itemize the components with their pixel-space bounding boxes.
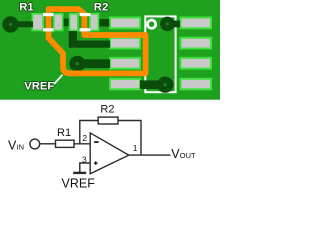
resistor R2 — [98, 117, 118, 124]
wire node A up to R2 — [80, 121, 98, 144]
svg-text:R1: R1 — [19, 2, 33, 14]
svg-text:VREF: VREF — [24, 81, 54, 93]
svg-text:3: 3 — [82, 154, 87, 164]
svg-text:2: 2 — [82, 133, 87, 143]
wire R2 pad 2 to IC pin 1 — [99, 19, 109, 27]
resistor R2 silkscreen tick bottom — [80, 28, 91, 31]
IC U1 pin 1 marker — [148, 20, 156, 28]
via VIN with wire to R1 pad 1 — [2, 16, 33, 32]
resistor R1 — [56, 140, 75, 147]
IC U1 silkscreen outline — [145, 16, 175, 92]
op-amp plus sign — [94, 161, 98, 165]
IC U1 left pad pin 2 — [109, 37, 141, 50]
PCB board background — [0, 0, 220, 100]
resistor R2 pad 1 — [69, 13, 79, 31]
svg-text:VREF: VREF — [62, 177, 96, 191]
resistor R1 silkscreen tick bottom — [43, 28, 54, 31]
svg-text:IN: IN — [17, 143, 25, 152]
VREF rail bar — [73, 172, 86, 174]
via top-right with wire to IC pin 8 — [160, 17, 180, 32]
svg-text:R1: R1 — [57, 127, 71, 139]
wire VREF trace (orange top-copper loop) — [49, 9, 146, 73]
resistor R1 pad 2 — [53, 13, 64, 31]
svg-text:1: 1 — [133, 143, 138, 153]
svg-text:R2: R2 — [100, 104, 114, 116]
IC U1 right pad pin 5 — [180, 78, 213, 91]
wire node to IC pin 2 (bottom copper) — [69, 31, 110, 48]
IC U1 left pad pin 4 — [109, 78, 141, 91]
wire VIN to R1 — [40, 143, 56, 145]
wire R1 to op-amp inverting input (node A) — [74, 143, 90, 145]
wire VREF to non-inverting input — [80, 163, 90, 172]
via VREF with wire to IC pin 3 — [69, 56, 110, 72]
svg-text:R2: R2 — [94, 2, 108, 14]
op-amp U1 triangle — [90, 133, 129, 174]
resistor R1 silkscreen tick top — [43, 13, 54, 16]
resistor R1 pad 1 — [32, 13, 45, 31]
wire R2 to output node — [118, 121, 141, 156]
via bottom with wire to IC pin 4 — [140, 77, 173, 93]
svg-text:OUT: OUT — [180, 151, 196, 160]
wire node R1-R2 junction — [64, 19, 69, 27]
IC U1 left pad pin 1 — [109, 17, 141, 30]
wire output to VOUT — [128, 154, 170, 156]
resistor R2 pad 2 — [89, 13, 99, 31]
op-amp minus sign — [94, 141, 98, 143]
IC U1 right pad pin 8 — [180, 17, 213, 30]
VREF pointer line — [54, 75, 63, 84]
terminal VIN — [30, 139, 40, 149]
IC U1 right pad pin 7 — [180, 37, 213, 50]
IC U1 right pad pin 6 — [180, 57, 213, 70]
IC U1 left pad pin 3 — [109, 57, 141, 70]
resistor R2 silkscreen tick top — [80, 13, 91, 16]
